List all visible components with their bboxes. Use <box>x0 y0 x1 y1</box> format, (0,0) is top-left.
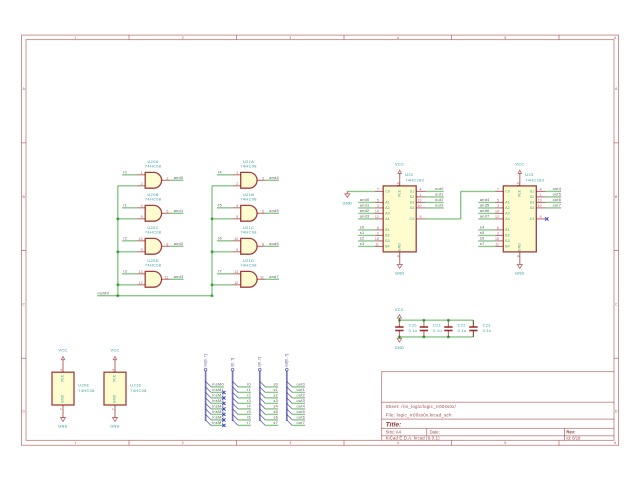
svg-text:11: 11 <box>495 242 499 246</box>
svg-text:B3: B3 <box>385 239 390 243</box>
no-connect X at insM5 <box>222 413 225 416</box>
AND gate U20B 74HC08 <box>145 192 162 221</box>
U23 pin 9 (C4) <box>530 215 546 221</box>
wire s3 to U22 B4 <box>358 245 375 247</box>
wire cap C23 bottom drop <box>472 331 474 337</box>
bus entry for r1 <box>233 387 239 393</box>
svg-text:12: 12 <box>495 215 499 219</box>
power symbol VCC at U21E <box>114 360 116 367</box>
bus entry for r2 <box>233 392 239 398</box>
svg-text:r1: r1 <box>247 388 251 392</box>
wire insM0 horizontal bottom <box>97 295 212 297</box>
svg-text:GND: GND <box>58 425 68 429</box>
wire r0 stub <box>238 386 251 388</box>
svg-text:Rev:: Rev: <box>566 430 575 435</box>
svg-text:14: 14 <box>112 369 116 373</box>
wire s3 stub <box>265 402 278 404</box>
power symbol VCC at U20E <box>62 360 64 367</box>
wire U21D input B to vertical insM0 net <box>212 284 233 286</box>
svg-text:out4: out4 <box>553 187 562 191</box>
svg-text:3: 3 <box>289 36 291 40</box>
wire out3 from U22 S4 <box>426 207 444 209</box>
junction caps bottom rail C20 <box>398 335 401 338</box>
bus entry for s5 <box>260 409 266 415</box>
bus entry for out6 <box>287 414 293 420</box>
svg-text:C0: C0 <box>505 190 510 194</box>
U21B pin 5 (input B) <box>233 215 241 219</box>
svg-text:9: 9 <box>236 248 238 252</box>
svg-text:U22: U22 <box>405 172 413 177</box>
U23 pin 1 (S2) <box>530 193 546 199</box>
power symbol GND at capacitor bank <box>398 337 400 338</box>
bus entry for out2 <box>287 392 293 398</box>
svg-text:U23: U23 <box>525 172 533 177</box>
wire carry U22 C4 to U23 C0 <box>426 191 495 219</box>
svg-text:5: 5 <box>504 441 506 445</box>
svg-text:1: 1 <box>540 193 542 197</box>
svg-text:2: 2 <box>377 231 379 235</box>
wire input r3 to U20D <box>122 273 137 275</box>
bus entry for insM1 <box>206 387 212 393</box>
wire out6 from U23 S3 <box>546 201 561 203</box>
svg-text:r0: r0 <box>247 382 251 386</box>
wire U20C input B to vertical insM0 net <box>118 251 137 253</box>
svg-text:ins[0..7]: ins[0..7] <box>203 354 207 367</box>
bus entry for s4 <box>260 403 266 409</box>
wire s4 to U23 B1 <box>478 229 495 231</box>
svg-text:r3: r3 <box>123 270 127 274</box>
svg-text:4: 4 <box>397 441 399 445</box>
wire cap C23 top drop <box>472 320 474 327</box>
svg-text:D: D <box>615 410 618 414</box>
wire s5 to U23 B2 <box>478 234 495 236</box>
U22 pin 6 (B1) <box>375 226 390 232</box>
wire output and5 from U21B <box>265 212 279 214</box>
svg-text:B4: B4 <box>505 245 510 249</box>
U22 pin 4 (S1) <box>410 187 426 193</box>
junction caps top rail C22 <box>447 319 450 322</box>
bus entry for s7 <box>260 420 266 426</box>
bus entry for s3 <box>260 398 266 404</box>
no-connect X at insM7 <box>222 424 225 427</box>
svg-text:s3: s3 <box>273 399 278 403</box>
power symbol VCC at U22 <box>399 173 401 180</box>
svg-text:6: 6 <box>377 226 379 230</box>
svg-text:B2: B2 <box>385 234 390 238</box>
bus entry for r5 <box>233 409 239 415</box>
svg-text:1: 1 <box>74 36 76 40</box>
U22 pin 14 (A3) <box>375 209 390 215</box>
svg-text:74HC08: 74HC08 <box>240 229 256 234</box>
svg-text:9: 9 <box>540 215 542 219</box>
bus s[0..7] vertical line <box>259 371 261 421</box>
svg-text:s7: s7 <box>273 421 278 425</box>
svg-text:out7: out7 <box>553 204 562 208</box>
U22 pin 5 (A1) <box>375 198 390 204</box>
bus entry for out4 <box>287 403 293 409</box>
svg-text:A1: A1 <box>505 201 510 205</box>
power symbol VCC at U23 <box>519 173 521 180</box>
U21C pin 8 (output) <box>257 242 265 246</box>
svg-text:6: 6 <box>262 209 264 213</box>
power symbol VCC at capacitor bank <box>398 318 400 320</box>
svg-text:s0: s0 <box>360 226 365 230</box>
U23 pin 6 (B1) <box>495 226 510 232</box>
bus entry for out3 <box>287 398 293 404</box>
wire out7 from U23 S4 <box>546 207 561 209</box>
bus entry for out0 <box>287 381 293 387</box>
no-connect X at insM6 <box>222 418 225 421</box>
wire U20A input B to vertical insM0 net <box>118 185 137 187</box>
svg-text:10: 10 <box>139 237 143 241</box>
wire input r2 to U20C <box>122 240 137 242</box>
svg-text:1: 1 <box>420 193 422 197</box>
U21B pin 6 (output) <box>257 209 265 213</box>
svg-text:13: 13 <box>234 270 238 274</box>
wire out1 stub <box>292 391 305 393</box>
svg-text:r4: r4 <box>247 404 251 408</box>
svg-text:12: 12 <box>375 215 379 219</box>
svg-text:2: 2 <box>182 36 184 40</box>
svg-text:VCC: VCC <box>515 162 524 166</box>
svg-text:and4: and4 <box>269 176 279 180</box>
wire s4 stub <box>265 408 278 410</box>
svg-text:3: 3 <box>166 176 168 180</box>
svg-text:GND: GND <box>61 394 65 402</box>
svg-text:VCC: VCC <box>518 189 522 197</box>
capacitor C21 0.1u <box>420 320 442 337</box>
svg-text:and4: and4 <box>480 198 490 202</box>
svg-text:s5: s5 <box>273 410 278 414</box>
svg-text:2: 2 <box>182 441 184 445</box>
power symbol GND at U23 <box>519 257 521 264</box>
junction insM0 column at U21C <box>211 250 214 253</box>
wire U20B input B to vertical insM0 net <box>118 218 137 220</box>
wire out2 stub <box>292 397 305 399</box>
svg-text:D: D <box>22 410 25 414</box>
svg-text:and1: and1 <box>174 209 184 213</box>
wire input r0 to U20A <box>122 174 137 176</box>
svg-text:r7: r7 <box>247 421 251 425</box>
U23 pin 4 (S1) <box>530 187 546 193</box>
svg-text:and6: and6 <box>480 209 490 213</box>
wire s0 stub <box>265 386 278 388</box>
wire insM4 stub <box>211 408 224 410</box>
wire insM1 stub <box>211 391 224 393</box>
svg-text:VCC: VCC <box>58 349 67 353</box>
junction insM0 column at U21B <box>211 217 214 220</box>
svg-text:VCC: VCC <box>398 189 402 197</box>
svg-text:out4: out4 <box>297 404 306 408</box>
svg-text:r2: r2 <box>247 393 251 397</box>
svg-text:and5: and5 <box>269 209 279 213</box>
wire input r1 to U20B <box>122 207 137 209</box>
U23 pin 2 (B2) <box>495 231 510 237</box>
svg-text:s7: s7 <box>480 242 485 246</box>
title block text <box>386 404 581 441</box>
wire insM2 stub <box>211 397 224 399</box>
svg-text:and2: and2 <box>360 209 370 213</box>
bus entry for r4 <box>233 403 239 409</box>
wire s1 stub <box>265 391 278 393</box>
U22 pin 15 (B3) <box>375 237 390 243</box>
svg-text:A4: A4 <box>505 217 510 221</box>
bus out[0..7] vertical line <box>286 371 288 421</box>
wire output and7 from U21D <box>265 278 279 280</box>
junction caps top rail C21 <box>422 319 425 322</box>
svg-text:A2: A2 <box>385 206 390 210</box>
svg-text:s2: s2 <box>273 393 278 397</box>
U21A pin 3 (output) <box>257 176 265 180</box>
U22 pin 9 (C4) <box>409 215 425 221</box>
svg-text:s1: s1 <box>273 388 278 392</box>
wire s7 to U23 B4 <box>478 245 495 247</box>
U21C pin 10 (input A) <box>233 237 241 241</box>
U20B pin 5 (input B) <box>137 215 145 219</box>
svg-text:r5: r5 <box>218 204 222 208</box>
wire input r5 to U21B <box>217 207 233 209</box>
U22 pin 8 (GND) <box>396 252 400 258</box>
bus label out[0..7] <box>285 354 289 371</box>
svg-text:out5: out5 <box>553 193 562 197</box>
svg-text:s6: s6 <box>273 415 278 419</box>
junction caps bottom rail C22 <box>447 335 450 338</box>
svg-text:out7: out7 <box>297 421 306 425</box>
AND gate U21B 74HC08 <box>240 192 257 221</box>
svg-text:r[0..7]: r[0..7] <box>230 358 234 367</box>
svg-text:B1: B1 <box>385 228 390 232</box>
svg-text:C22: C22 <box>458 322 466 327</box>
svg-text:and7: and7 <box>480 215 490 219</box>
svg-text:out0: out0 <box>435 187 444 191</box>
svg-text:S2: S2 <box>410 195 415 199</box>
svg-text:16: 16 <box>516 182 520 186</box>
svg-text:VCC: VCC <box>61 374 65 382</box>
sheet border outer frame <box>22 35 619 445</box>
U22 pin 10 (S4) <box>410 204 426 210</box>
svg-text:0.1u: 0.1u <box>409 328 418 333</box>
svg-text:C0: C0 <box>385 190 390 194</box>
capacitor C23 0.1u <box>469 320 491 337</box>
svg-text:r3: r3 <box>247 399 251 403</box>
bus entry for s0 <box>260 381 266 387</box>
wire s0 to U22 B1 <box>358 229 375 231</box>
svg-text:and5: and5 <box>480 204 490 208</box>
svg-text:10: 10 <box>538 204 542 208</box>
wire insM6 stub <box>211 419 224 421</box>
wire insM3 stub <box>211 402 224 404</box>
sheet border inner frame <box>26 40 614 441</box>
svg-text:5: 5 <box>236 215 238 219</box>
svg-text:4: 4 <box>397 36 399 40</box>
U20E pin 7 (GND) <box>60 405 64 411</box>
U21E pin 7 (GND) <box>112 405 116 411</box>
svg-text:6: 6 <box>614 36 616 40</box>
no-connect X at U23 C4 <box>545 217 548 220</box>
bus entry for s1 <box>260 387 266 393</box>
U20A pin 2 (input B) <box>137 182 145 186</box>
svg-text:r0: r0 <box>123 171 127 175</box>
title block outline <box>382 372 614 441</box>
svg-text:16: 16 <box>396 182 400 186</box>
wire insM5 stub <box>211 413 224 415</box>
svg-text:A4: A4 <box>385 217 390 221</box>
svg-text:VCC: VCC <box>113 374 117 382</box>
svg-text:VCC: VCC <box>110 349 119 353</box>
svg-text:13: 13 <box>139 270 143 274</box>
svg-text:and1: and1 <box>360 204 370 208</box>
svg-text:KiCad E.D.A. kicad (6.0.1): KiCad E.D.A. kicad (6.0.1) <box>386 436 440 441</box>
svg-text:s6: s6 <box>480 237 485 241</box>
svg-text:B4: B4 <box>385 245 390 249</box>
svg-text:S3: S3 <box>530 201 535 205</box>
svg-text:8: 8 <box>166 242 168 246</box>
svg-text:out3: out3 <box>435 204 444 208</box>
U20D pin 11 (output) <box>162 275 170 279</box>
U21D pin 12 (input B) <box>233 281 241 285</box>
power unit U21E 74HC08 body <box>104 372 147 405</box>
no-connect X at insM2 <box>222 396 225 399</box>
svg-text:3: 3 <box>262 176 264 180</box>
svg-text:GND: GND <box>515 272 525 276</box>
svg-text:C4: C4 <box>530 217 535 221</box>
no-connect X at insM1 <box>222 391 225 394</box>
wire GND to U22 C0 <box>347 190 375 192</box>
wire and5 to U23 A2 <box>478 207 495 209</box>
svg-text:out3: out3 <box>297 399 306 403</box>
svg-text:and7: and7 <box>269 275 279 279</box>
wire and0 to U22 A1 <box>358 201 375 203</box>
svg-text:s4: s4 <box>480 226 485 230</box>
svg-text:out2: out2 <box>297 393 306 397</box>
wire out5 from U23 S2 <box>546 196 561 198</box>
svg-text:0.1u: 0.1u <box>483 328 492 333</box>
U23 pin 5 (A1) <box>495 198 510 204</box>
AND gate U20A 74HC08 <box>145 159 162 188</box>
bus entry for r0 <box>233 381 239 387</box>
U20B pin 6 (output) <box>162 209 170 213</box>
svg-text:6: 6 <box>614 441 616 445</box>
U23 pin 11 (B4) <box>495 242 510 248</box>
svg-text:A3: A3 <box>505 212 510 216</box>
svg-text:13: 13 <box>418 198 422 202</box>
svg-text:74HC08: 74HC08 <box>78 388 94 393</box>
U23 pin 3 (A2) <box>495 204 510 210</box>
bus entry for r3 <box>233 398 239 404</box>
svg-text:74HC08: 74HC08 <box>145 229 161 234</box>
svg-text:14: 14 <box>60 369 64 373</box>
wire U20D input B to vertical insM0 net <box>118 284 137 286</box>
svg-text:2: 2 <box>236 182 238 186</box>
bus label ins[0..7] <box>203 354 207 371</box>
svg-text:r1: r1 <box>123 204 127 208</box>
svg-text:74HC283: 74HC283 <box>405 178 424 183</box>
4-bit adder U22 74HC283 body <box>383 172 424 252</box>
bus entry for insM0 <box>206 381 212 387</box>
U20C pin 8 (output) <box>162 242 170 246</box>
svg-text:7: 7 <box>497 187 499 191</box>
svg-text:C: C <box>615 303 618 307</box>
svg-text:A2: A2 <box>505 206 510 210</box>
frame column ticks <box>22 35 619 445</box>
junction insM0 / U21 column <box>211 294 214 297</box>
svg-text:1: 1 <box>74 441 76 445</box>
svg-text:4: 4 <box>420 187 422 191</box>
svg-text:S2: S2 <box>530 195 535 199</box>
U20C pin 10 (input A) <box>137 237 145 241</box>
wire insM0 stub <box>211 386 224 388</box>
bus ins[0..7] vertical line <box>205 371 207 421</box>
svg-text:out6: out6 <box>553 198 562 202</box>
U20A pin 1 (input A) <box>137 171 145 175</box>
power symbol GND at U20E <box>62 411 64 418</box>
wire s6 to U23 B3 <box>478 240 495 242</box>
no-connect X at insM3 <box>222 402 225 405</box>
wire r3 stub <box>238 402 251 404</box>
wire r4 stub <box>238 408 251 410</box>
wire out4 from U23 S1 <box>546 190 561 192</box>
svg-text:S3: S3 <box>410 201 415 205</box>
U22 pin 2 (B2) <box>375 231 390 237</box>
bus entry for insM6 <box>206 414 212 420</box>
svg-text:S1: S1 <box>530 190 535 194</box>
svg-text:15: 15 <box>375 237 379 241</box>
svg-text:5: 5 <box>497 198 499 202</box>
svg-text:1: 1 <box>141 171 143 175</box>
wire out1 from U22 S2 <box>426 196 444 198</box>
capacitor C22 0.1u <box>444 320 466 337</box>
wire and2 to U22 A3 <box>358 212 375 214</box>
svg-text:Id: 6/16: Id: 6/16 <box>566 436 581 441</box>
svg-text:4: 4 <box>540 187 542 191</box>
bus label r[0..7] <box>230 358 234 371</box>
svg-text:and3: and3 <box>174 275 184 279</box>
U20C pin 9 (input B) <box>137 248 145 252</box>
svg-text:C4: C4 <box>409 217 414 221</box>
svg-text:11: 11 <box>375 242 379 246</box>
svg-text:C21: C21 <box>433 322 441 327</box>
svg-text:S4: S4 <box>410 206 415 210</box>
U20A pin 3 (output) <box>162 176 170 180</box>
svg-text:out2: out2 <box>435 198 444 202</box>
svg-text:4: 4 <box>236 204 238 208</box>
U21B pin 4 (input A) <box>233 204 241 208</box>
svg-text:C23: C23 <box>483 322 491 327</box>
svg-text:out6: out6 <box>297 415 306 419</box>
wire VCC rail (caps top) <box>399 319 473 321</box>
wire out0 stub <box>292 386 305 388</box>
svg-text:3: 3 <box>377 204 379 208</box>
wire and7 to U23 A4 <box>478 218 495 220</box>
svg-text:1: 1 <box>236 171 238 175</box>
svg-text:14: 14 <box>495 209 499 213</box>
svg-text:0.1u: 0.1u <box>433 328 442 333</box>
junction caps top rail C20 <box>398 319 401 322</box>
wire r7 stub <box>238 424 251 426</box>
svg-text:7: 7 <box>60 408 64 410</box>
svg-text:B1: B1 <box>505 228 510 232</box>
svg-text:74HC283: 74HC283 <box>525 178 544 183</box>
svg-text:out1: out1 <box>435 193 444 197</box>
wire output and0 from U20A <box>170 179 184 181</box>
junction insM0 column at U20C <box>116 250 119 253</box>
svg-text:74HC08: 74HC08 <box>145 196 161 201</box>
U21E pin 14 (VCC) <box>112 367 116 373</box>
svg-text:and6: and6 <box>269 242 279 246</box>
svg-text:Size: A4: Size: A4 <box>386 430 402 435</box>
bus entry for insM2 <box>206 392 212 398</box>
svg-text:74HC08: 74HC08 <box>145 262 161 267</box>
